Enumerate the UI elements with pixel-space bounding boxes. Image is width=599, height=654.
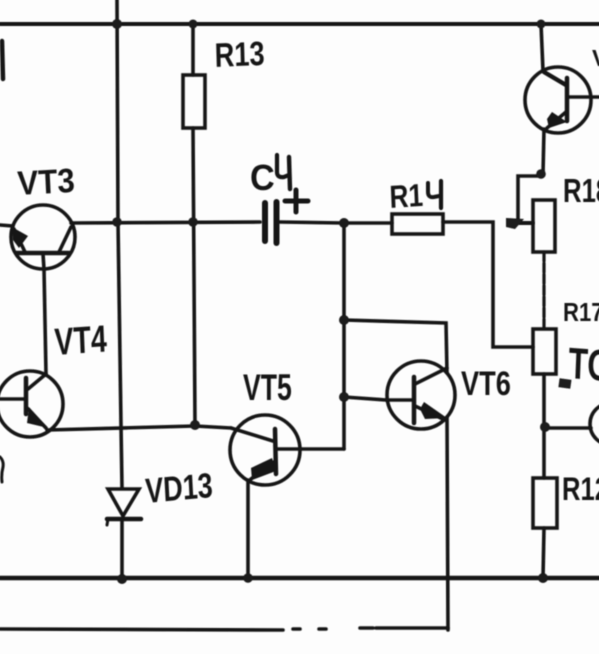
svg-text:R18: R18 xyxy=(563,173,599,210)
svg-text:C: C xyxy=(250,158,275,198)
svg-text:R13: R13 xyxy=(214,34,265,75)
svg-text:V: V xyxy=(592,45,599,71)
svg-text:R1: R1 xyxy=(389,179,424,216)
svg-text:R17: R17 xyxy=(563,298,599,327)
svg-text:TO: TO xyxy=(568,339,599,391)
svg-text:VT5: VT5 xyxy=(243,367,292,408)
svg-text:VT4: VT4 xyxy=(54,319,108,364)
svg-text:VT6: VT6 xyxy=(461,364,511,403)
svg-text:R12: R12 xyxy=(562,472,599,507)
svg-text:VT3: VT3 xyxy=(16,161,75,203)
svg-text:VD13: VD13 xyxy=(144,466,213,511)
